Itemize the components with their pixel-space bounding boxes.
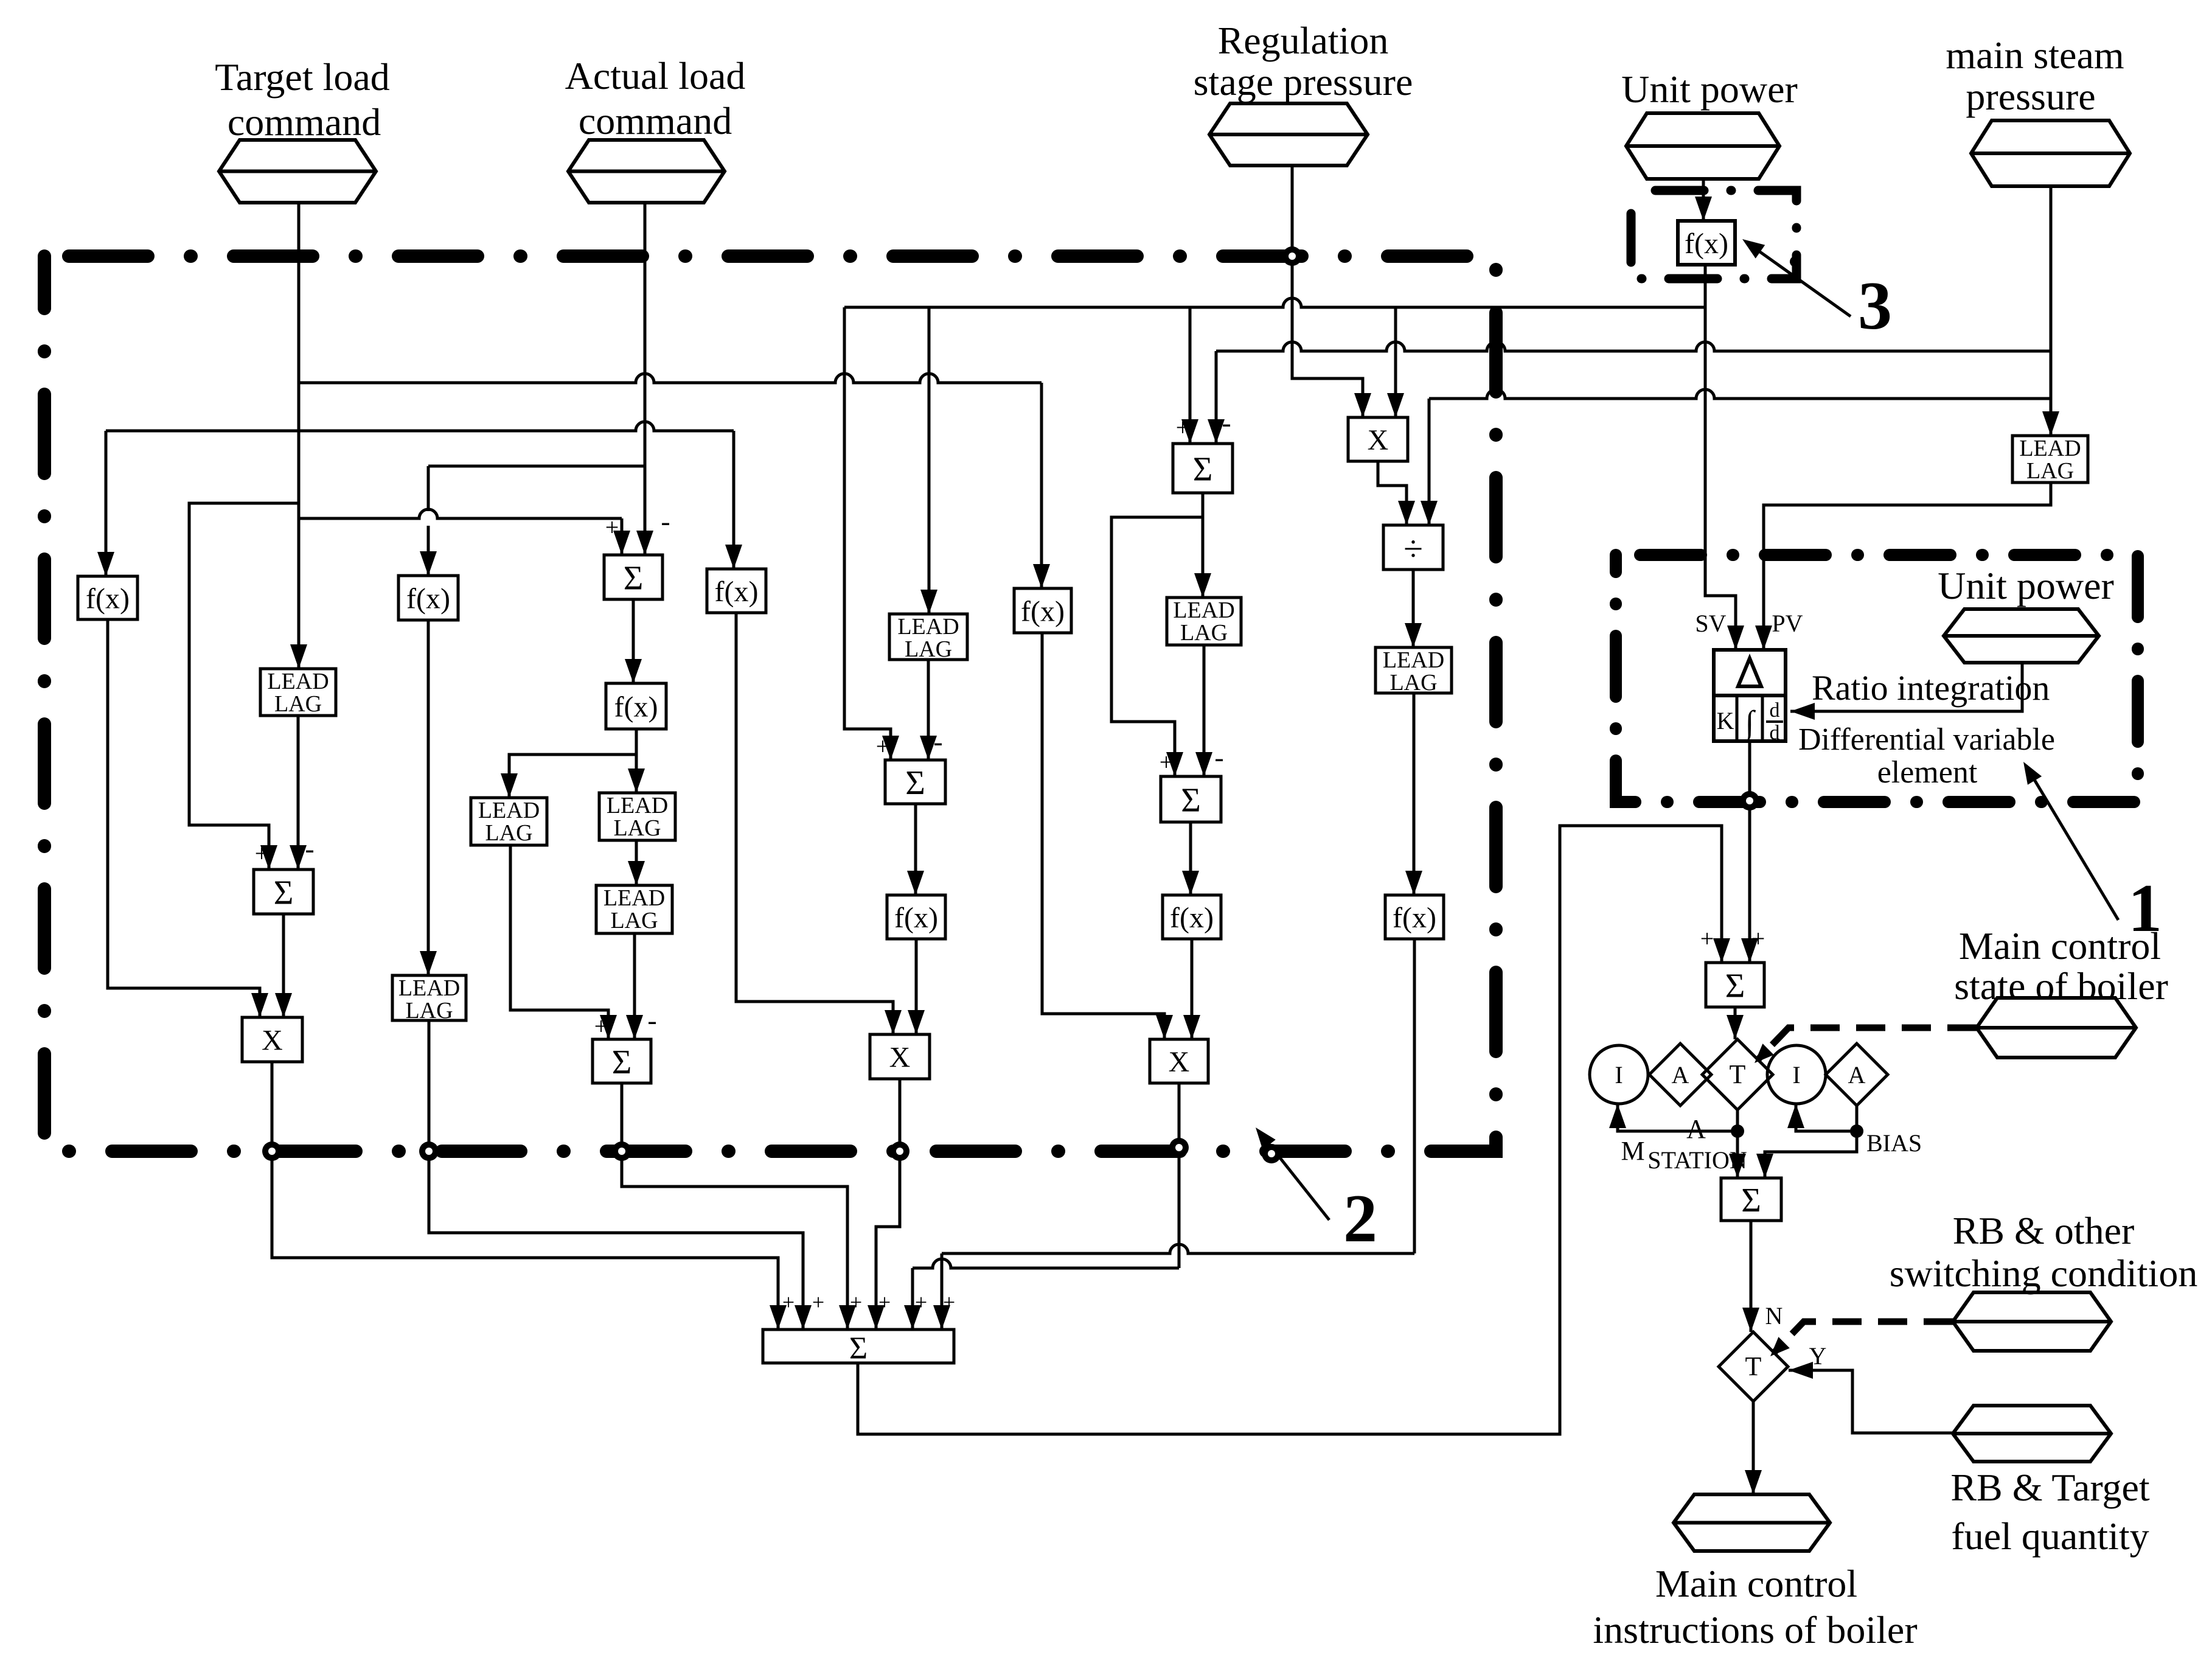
transfer switch T diamond (bottom) — [1719, 1332, 1788, 1401]
svg-text:I: I — [1792, 1061, 1800, 1089]
border crossing dot (regulation/top) — [1282, 246, 1302, 266]
wire: Sigma4 output to big Sigma9 input3 — [622, 1083, 856, 1330]
wire: f(x)1 output to X1 left — [108, 619, 268, 1017]
svg-text:LAG: LAG — [485, 820, 532, 846]
svg-text:LAG: LAG — [405, 998, 453, 1023]
wire: Sigma8 output to M/A T diamond — [1727, 1007, 1744, 1039]
svg-text:I: I — [1615, 1061, 1622, 1089]
wire: Sigma5 output to LEAD LAG7 and branch to Sigma7 plus — [1111, 493, 1211, 776]
wire: target branch y827 to Sigma2 plus — [189, 503, 299, 870]
callout 1 arrow — [2016, 758, 2162, 946]
wire: bus655 down into divider right — [1421, 399, 1438, 525]
wire: bus y629 target load to f(x)5 — [299, 374, 1050, 588]
svg-text:+: + — [876, 733, 890, 760]
ratio integration / differential frame 1 (dash-dot border) — [1616, 555, 2138, 802]
summer block Sigma 8 — [1706, 963, 1764, 1007]
wire: main steam pressure vertical into LEAD LAG 8 — [2042, 186, 2059, 436]
wire: T diamond output to Sigma10 and I circle 1 — [1609, 1104, 1746, 1178]
svg-text:LAG: LAG — [274, 691, 322, 717]
wire: LEAD LAG5 output to Sigma4 minus — [626, 933, 643, 1039]
input tag: Target load command — [215, 55, 390, 203]
svg-text:switching condition: switching condition — [1890, 1252, 2198, 1295]
svg-text:X: X — [1368, 424, 1389, 456]
svg-text:+: + — [1751, 925, 1765, 952]
M/A station A diamond 2 — [1826, 1044, 1888, 1106]
wire: f(x)5 output to X4 left — [1042, 633, 1173, 1039]
svg-text:T: T — [1730, 1059, 1746, 1089]
svg-text:2: 2 — [1343, 1181, 1377, 1256]
LEAD LAG block 8 (main steam pressure) — [2012, 436, 2088, 484]
border crossing dot x1938 — [1169, 1138, 1189, 1157]
input tag: Unit power (top) — [1621, 68, 1798, 179]
svg-text:LEAD: LEAD — [2019, 436, 2081, 461]
svg-text:Σ: Σ — [849, 1331, 868, 1366]
summer block Sigma 5 — [1173, 444, 1233, 493]
svg-text:+: + — [594, 1012, 608, 1040]
svg-text:Actual load: Actual load — [565, 54, 746, 97]
junction dot below T diamond — [1731, 1124, 1744, 1138]
dashed wire: RB switching condition to bottom T diamond — [1765, 1322, 1953, 1362]
wire: unit power into f(x)8 — [1695, 179, 1712, 221]
svg-text:LAG: LAG — [1180, 620, 1228, 646]
svg-text:Main control: Main control — [1655, 1562, 1857, 1605]
label M — [1621, 1136, 1644, 1166]
LEAD LAG block 2 — [392, 975, 466, 1023]
svg-text:LEAD: LEAD — [607, 793, 668, 818]
svg-text:K: K — [1717, 707, 1734, 734]
svg-text:+: + — [850, 1290, 862, 1314]
big summer block Sigma 9 (bottom) — [763, 1330, 954, 1366]
svg-text:+: + — [255, 840, 269, 867]
M/A station A diamond 1 — [1649, 1044, 1711, 1106]
label PV — [1772, 610, 1803, 637]
input tag: Regulation stage pressure — [1194, 19, 1413, 166]
function block f(x) 3 — [707, 569, 766, 613]
svg-text:LAG: LAG — [610, 908, 658, 933]
svg-text:RB & other: RB & other — [1953, 1209, 2135, 1252]
border crossing dot x1479 — [890, 1141, 909, 1161]
svg-text:-: - — [933, 726, 942, 757]
M/A station T transfer diamond — [1702, 1039, 1773, 1110]
wire: A diamond 2 BIAS branch to I circle 2 and Sigma10 — [1756, 1104, 1857, 1178]
svg-text:Σ: Σ — [1725, 967, 1745, 1005]
M/A station I circle 1 — [1590, 1045, 1648, 1104]
wire: LEAD LAG7 output to Sigma7 minus — [1195, 645, 1212, 776]
svg-text:command: command — [579, 99, 732, 142]
wire: Sigma3 output to f(x)4 — [625, 599, 642, 683]
wire: LEAD LAG2 output to big Sigma9 input2 — [429, 1020, 812, 1330]
wire: LEAD LAG4 output to LEAD LAG5 — [628, 840, 645, 885]
LEAD LAG block 5 — [596, 885, 672, 933]
svg-text:f(x): f(x) — [1685, 228, 1728, 260]
junction dot BIAS — [1850, 1124, 1863, 1138]
function block f(x) 5 — [1014, 588, 1071, 633]
LEAD LAG block 4 — [599, 793, 675, 841]
multiplier block X4 — [1150, 1039, 1208, 1083]
svg-text:f(x): f(x) — [715, 576, 759, 608]
wire: Sigma6 output to f(x)6 — [907, 804, 924, 895]
wire: bus505 branch down to X3 right — [1387, 307, 1404, 417]
wire: LEAD LAG9 output to f(x)9 — [1405, 693, 1422, 895]
callout 3 arrow — [1737, 232, 1892, 344]
svg-text:Unit power: Unit power — [1938, 564, 2114, 607]
svg-text:LEAD: LEAD — [267, 669, 329, 694]
wire: actual load branch y766 to f(x)2 — [420, 466, 645, 576]
svg-text:PV: PV — [1772, 610, 1803, 637]
svg-text:LEAD: LEAD — [897, 614, 959, 640]
wire: f(x)6 output to X2 right — [908, 939, 925, 1034]
svg-text:LEAD: LEAD — [1173, 598, 1234, 623]
ratio-integration / differential block (Delta, K, integral, d/dt) — [1714, 650, 1786, 744]
wire: bus505 branch down to LEAD LAG 6 — [920, 307, 937, 614]
plus/minus input sign labels — [255, 407, 1765, 1314]
svg-text:Regulation: Regulation — [1218, 19, 1389, 62]
svg-text:f(x): f(x) — [1393, 902, 1436, 934]
svg-text:Σ: Σ — [612, 1044, 632, 1081]
wire: bus y577 from main steam — [1216, 342, 2051, 351]
label A STATION — [1647, 1114, 1747, 1174]
svg-text:-: - — [305, 833, 314, 864]
svg-text:A: A — [1848, 1061, 1866, 1089]
summer block Sigma 4 — [593, 1039, 651, 1083]
multiplier block X3 — [1348, 417, 1408, 461]
svg-text:+: + — [1176, 414, 1190, 441]
wire: f(x)2 output to LEAD LAG2 — [420, 620, 437, 975]
input tag: RB &amp; other switching condition — [1890, 1209, 2198, 1351]
wire: bus y505 from f(x)8 output — [844, 298, 1705, 307]
callout 2 arrow — [1249, 1123, 1377, 1256]
svg-text:RB & Target: RB & Target — [1950, 1466, 2150, 1509]
wire: X3 output to divider left — [1378, 461, 1415, 525]
svg-text:element: element — [1877, 755, 1978, 790]
input tag: Actual load command — [565, 54, 746, 203]
svg-text:f(x): f(x) — [614, 691, 658, 723]
svg-text:+: + — [782, 1290, 795, 1314]
wire: X2 output to big Sigma9 input4 — [868, 1079, 900, 1330]
svg-text:Σ: Σ — [905, 764, 925, 802]
svg-text:pressure: pressure — [1966, 75, 2095, 118]
frame1 border crossing dot — [1740, 791, 1759, 810]
function block f(x) 8 (unit power, frame 3) — [1678, 221, 1735, 265]
svg-text:f(x): f(x) — [406, 583, 450, 615]
svg-text:f(x): f(x) — [1021, 596, 1065, 628]
border crossing dot x705 — [419, 1141, 439, 1161]
wire: LEAD LAG3 output to Sigma4 plus — [510, 845, 617, 1039]
svg-text:Σ: Σ — [1181, 782, 1201, 820]
wire: f(x)9 output to big Sigma9 input6 — [933, 939, 1414, 1330]
label Ratio integration — [1812, 668, 2050, 708]
svg-text:-: - — [661, 506, 670, 537]
wire: LEAD LAG1 output to Sigma2 minus — [290, 716, 307, 870]
svg-text:LEAD: LEAD — [398, 975, 460, 1001]
svg-text:1: 1 — [2128, 871, 2162, 946]
svg-text:LAG: LAG — [1389, 670, 1437, 695]
LEAD LAG block 1 — [260, 669, 336, 717]
wire: Sigma2 output to X1 right — [275, 914, 292, 1017]
svg-text:BIAS: BIAS — [1866, 1129, 1922, 1157]
svg-text:T: T — [1745, 1351, 1762, 1381]
M/A station I circle 2 — [1767, 1045, 1826, 1104]
svg-text:LEAD: LEAD — [1383, 647, 1444, 673]
svg-text:+: + — [915, 1290, 927, 1314]
label BIAS — [1866, 1129, 1922, 1157]
svg-text:M: M — [1621, 1136, 1644, 1166]
multiplier block X1 — [242, 1017, 302, 1062]
svg-text:SV: SV — [1695, 610, 1726, 637]
function block f(x) 1 (left column) — [78, 576, 137, 619]
svg-text:Target load: Target load — [215, 55, 390, 99]
multiplier block X2 — [870, 1034, 930, 1079]
svg-text:d: d — [1770, 722, 1780, 744]
svg-text:fuel quantity: fuel quantity — [1951, 1514, 2149, 1558]
wire: f(x)8 output to Delta SV input — [1705, 265, 1744, 650]
svg-text:command: command — [228, 100, 381, 144]
input tag: Main control state of boiler — [1954, 924, 2168, 1058]
wire: bus505 branch down to Sigma6 — [844, 307, 899, 760]
svg-text:+: + — [1700, 925, 1714, 952]
wire: target branch y852 to Sigma3 plus — [299, 509, 630, 555]
svg-text:main steam: main steam — [1946, 33, 2124, 77]
label SV — [1695, 610, 1726, 637]
svg-text:f(x): f(x) — [1170, 902, 1214, 934]
output tag: Main control instructions of boiler — [1593, 1494, 1917, 1651]
divider block — [1383, 525, 1443, 570]
wire: divider output to LEAD LAG9 — [1405, 570, 1422, 647]
label Differential variable element — [1798, 722, 2055, 790]
wire: Y input from RB &amp; Target fuel quantity to T diamond — [1789, 1362, 1953, 1433]
svg-text:+: + — [605, 514, 619, 541]
svg-text:Unit power: Unit power — [1621, 68, 1798, 111]
summer block Sigma 7 — [1161, 776, 1221, 822]
svg-text:Ratio integration: Ratio integration — [1812, 668, 2050, 708]
summer block Sigma 10 (M/A station output) — [1721, 1178, 1781, 1221]
coordination control frame 2 (dash-dot border) — [44, 256, 1496, 1151]
unit power function frame 3 (dash-dot border) — [1631, 190, 1796, 279]
svg-text:+: + — [943, 1290, 955, 1314]
summer block Sigma 2 — [254, 870, 313, 914]
function block f(x) 9 — [1385, 895, 1444, 939]
label N — [1765, 1302, 1783, 1330]
LEAD LAG block 6 — [889, 614, 967, 662]
function block f(x) 7 — [1163, 895, 1221, 939]
wire: target load command vertical — [290, 203, 307, 669]
svg-text:LEAD: LEAD — [478, 798, 540, 823]
wire: bus505 branch down to Sigma5 plus — [1181, 307, 1198, 444]
svg-text:X: X — [262, 1025, 283, 1057]
function block f(x) 4 — [606, 683, 666, 729]
wire: LEAD LAG 8 output to Delta PV input — [1755, 483, 2051, 650]
svg-text:LAG: LAG — [613, 815, 661, 841]
wire: bottom T diamond output to output tag — [1745, 1401, 1762, 1494]
wire: unit power (frame1) to differential input — [1790, 663, 2022, 720]
wire: X4 output to big Sigma9 input5 — [904, 1083, 1179, 1330]
svg-text:STATION: STATION — [1647, 1146, 1747, 1174]
svg-text:Σ: Σ — [1741, 1182, 1761, 1219]
svg-text:-: - — [647, 1005, 656, 1036]
svg-text:instructions of boiler: instructions of boiler — [1593, 1608, 1917, 1651]
svg-text:Differential variable: Differential variable — [1798, 722, 2055, 757]
svg-text:X: X — [889, 1042, 911, 1074]
svg-text:A: A — [1672, 1061, 1689, 1089]
svg-text:d: d — [1770, 699, 1780, 722]
svg-text:Σ: Σ — [624, 560, 644, 598]
input tag: Unit power (frame 1) — [1938, 564, 2114, 663]
wire: big Sigma9 output loop up to Sigma8 left — [858, 826, 1730, 1434]
LEAD LAG block 3 — [471, 798, 547, 846]
svg-text:Σ: Σ — [1193, 451, 1213, 489]
wire: LEAD LAG6 output to Sigma6 minus — [920, 660, 937, 760]
svg-text:X: X — [1169, 1046, 1190, 1078]
svg-text:+: + — [812, 1290, 824, 1314]
dashed wire: main control state of boiler to T diamond — [1749, 1028, 1977, 1068]
svg-text:A: A — [1686, 1114, 1706, 1144]
svg-text:3: 3 — [1858, 268, 1892, 344]
border crossing dot x1022 — [612, 1141, 631, 1161]
wire: f(x)4 output to LEAD LAG4 and branch to LEAD LAG3 — [501, 729, 645, 798]
wire: f(x)3 output to X2 left — [736, 613, 902, 1034]
svg-text:state of boiler: state of boiler — [1954, 964, 2168, 1008]
wire: bus577 down to Sigma5 minus — [1208, 351, 1225, 444]
wire: Delta block output to Sigma8 — [1741, 741, 1758, 963]
wire: bus y655 from main steam to divider — [1429, 389, 2051, 399]
wire: Sigma7 output to f(x)7 — [1182, 822, 1199, 895]
svg-text:-: - — [1222, 407, 1231, 438]
function block f(x) 6 — [887, 895, 945, 939]
LEAD LAG block 7 — [1167, 598, 1241, 646]
svg-text:N: N — [1765, 1302, 1783, 1330]
summer block Sigma 6 — [885, 760, 945, 804]
wire: actual load command vertical — [636, 203, 653, 555]
svg-text:f(x): f(x) — [86, 583, 130, 615]
input tag: RB &amp; Target fuel quantity — [1950, 1406, 2150, 1558]
label Y — [1809, 1342, 1827, 1370]
function block f(x) 2 — [398, 576, 458, 620]
input tag: main steam pressure — [1946, 33, 2130, 186]
border crossing dot x447 — [262, 1141, 282, 1161]
svg-text:f(x): f(x) — [894, 902, 938, 934]
LEAD LAG block 9 — [1376, 647, 1452, 695]
wire: regulation stage pressure to X3 left — [1292, 166, 1371, 417]
svg-text:LAG: LAG — [905, 636, 952, 662]
svg-text:Y: Y — [1809, 1342, 1827, 1370]
svg-text:LAG: LAG — [2026, 458, 2074, 484]
svg-text:÷: ÷ — [1403, 529, 1423, 568]
wire: Sigma10 output to bottom T diamond — [1742, 1221, 1759, 1332]
svg-text:-: - — [1214, 742, 1223, 773]
wire: bus y708 to f(x)1 and f(x)3 — [97, 422, 742, 576]
wire: X1 output to big Sigma9 input1 — [272, 1062, 787, 1330]
svg-text:+: + — [878, 1290, 891, 1314]
svg-text:stage pressure: stage pressure — [1194, 60, 1413, 103]
svg-text:+: + — [1160, 748, 1174, 776]
wire: f(x)7 output to X4 right — [1183, 939, 1200, 1039]
summer block Sigma 3 — [604, 555, 663, 599]
svg-text:Σ: Σ — [274, 874, 294, 912]
svg-text:LEAD: LEAD — [603, 885, 665, 911]
